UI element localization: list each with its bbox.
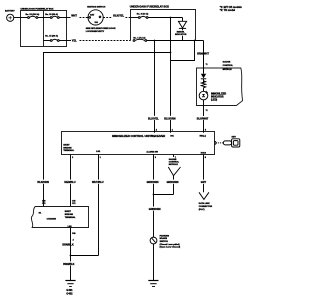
fuse No.15 (40 A) <box>44 34 72 41</box>
node No.1 line / +B vertical <box>154 40 156 42</box>
svg-text:BLU/WHT: BLU/WHT <box>197 117 209 120</box>
svg-text:WHT: WHT <box>71 15 77 18</box>
svg-text:TERMINAL: TERMINAL <box>63 149 74 152</box>
svg-text:C49: C49 <box>72 199 75 202</box>
svg-text:CONTROL: CONTROL <box>223 65 234 67</box>
svg-text:E/KET: E/KET <box>65 211 72 213</box>
wire YEL to under-dash box <box>72 40 131 43</box>
svg-text:*2: TR model: *2: TR model <box>220 9 236 12</box>
svg-text:CONTROL: CONTROL <box>169 162 180 164</box>
ground parking brake switch <box>148 281 158 287</box>
node GRN/ORN merge <box>153 194 155 196</box>
svg-text:BRN/BLK: BRN/BLK <box>63 263 74 266</box>
svg-text:INDICATOR: INDICATOR <box>175 33 187 36</box>
svg-text:WHT/BLU: WHT/BLU <box>92 181 104 184</box>
svg-text:GAUGE: GAUGE <box>223 61 231 64</box>
svg-text:IGNITION SWITCH: IGNITION SWITCH <box>87 6 106 8</box>
svg-text:GRN/ORN: GRN/ORN <box>147 181 159 184</box>
svg-text:SWITCH: SWITCH <box>160 241 169 243</box>
svg-text:(Closed: Lever pulled): (Closed: Lever pulled) <box>160 244 180 246</box>
svg-text:DATA LINK: DATA LINK <box>199 202 210 205</box>
wire BLK/YEL ignition to under-dash box <box>103 15 130 18</box>
fuse No.32 (100 A) <box>21 13 51 19</box>
svg-text:BRIDGE: BRIDGE <box>63 147 72 149</box>
node No.1 line / riser <box>194 40 196 42</box>
svg-text:BATTERY: BATTERY <box>5 9 15 12</box>
diode D (immobilizer indicator diode) <box>175 18 187 41</box>
svg-text:MODULE: MODULE <box>223 69 233 71</box>
svg-text:INDICATOR: INDICATOR <box>211 95 224 98</box>
svg-text:G1: G1 <box>39 213 42 215</box>
wire BRN/WHT from No.1 line down to gauge module <box>197 41 211 74</box>
connector labels above bridge box <box>42 199 75 205</box>
svg-text:G402: G402 <box>66 292 73 295</box>
svg-text:BLK/YEL: BLK/YEL <box>113 15 124 18</box>
node fuse9/IG1 junction <box>170 17 172 19</box>
fuse No.1 (7.5 A) <box>133 36 203 41</box>
svg-text:ALARM SW: ALARM SW <box>146 151 157 154</box>
svg-text:No. 32 (100 A): No. 32 (100 A) <box>26 13 40 16</box>
battery B1 <box>5 9 15 21</box>
svg-text:GRN/ORN: GRN/ORN <box>149 208 161 211</box>
svg-text:GRY: GRY <box>201 181 207 184</box>
LED immobilizer indicator <box>199 91 226 101</box>
immobilizer control unit-receiver box <box>62 132 215 155</box>
svg-text:CHASSIS: CHASSIS <box>47 218 57 221</box>
wire label BRN/BLK lower <box>63 261 75 266</box>
wire switch to ground <box>153 244 155 280</box>
note *1 *2 <box>220 6 243 12</box>
wire vertical B (+B feed) to control unit <box>154 41 156 132</box>
svg-text:(Open: Lever released): (Open: Lever released) <box>160 247 181 249</box>
wire riser from No.1 line down-left to IG1 vertical <box>171 41 195 61</box>
svg-text:C72: C72 <box>72 203 75 205</box>
label E/KET bridge terminal (pin 2) <box>63 145 74 153</box>
node bus junction on vertical A <box>170 52 172 54</box>
svg-text:(DLC): (DLC) <box>199 209 205 211</box>
wire bridge box down to ground <box>62 228 75 281</box>
pin 1 top (IG1) <box>170 129 174 137</box>
wire label GRN/ORN lower <box>149 207 163 212</box>
wire vertical A (IG1 feed) to control unit <box>170 18 172 132</box>
svg-text:BRIDGE: BRIDGE <box>65 214 74 216</box>
svg-text:KEY: KEY <box>232 136 237 138</box>
gauge control module box (torn edge) <box>197 61 243 106</box>
under-hood fuse/relay box <box>21 7 67 46</box>
svg-text:BAT: BAT <box>90 14 95 17</box>
svg-text:IMMOBILIZER CONTROL UNIT-RECEI: IMMOBILIZER CONTROL UNIT-RECEIVER <box>112 134 165 138</box>
wire battery to under-hood box <box>14 17 21 19</box>
wire bus from vertical A to left drop <box>44 53 171 207</box>
svg-text:C72: C72 <box>42 203 45 205</box>
svg-text:TERMINAL: TERMINAL <box>65 216 76 219</box>
wire pin1 branch merge <box>71 255 99 257</box>
svg-text:No. 15 (40 A): No. 15 (40 A) <box>45 34 58 37</box>
wire WHT to ignition switch <box>71 15 88 18</box>
svg-text:UNDER-DASH FUSE/RELAY BOX: UNDER-DASH FUSE/RELAY BOX <box>130 6 170 9</box>
svg-text:No. 9 (10 A): No. 9 (10 A) <box>137 12 149 15</box>
ignition key with transponder <box>223 136 240 147</box>
pin 4 (+B) <box>150 128 158 137</box>
svg-text:BLK/YEL: BLK/YEL <box>148 117 159 120</box>
svg-text:BLU/ORN: BLU/ORN <box>164 117 176 120</box>
wire LED to control unit pin 5 <box>197 100 211 132</box>
svg-text:BRAKE: BRAKE <box>160 237 168 240</box>
fuse No.33 (50 A) <box>45 13 70 19</box>
svg-text:E/KET: E/KET <box>63 145 70 147</box>
svg-text:MODULE: MODULE <box>169 164 179 166</box>
svg-text:No. 33 (50 A): No. 33 (50 A) <box>45 13 58 16</box>
wire label BLU/ORN <box>164 116 178 121</box>
svg-text:DIAG: DIAG <box>201 152 207 155</box>
wire label BLK/ORN <box>37 180 51 185</box>
diode in gauge module <box>201 41 206 84</box>
ground G401 <box>65 281 75 296</box>
svg-text:YEL: YEL <box>72 40 77 43</box>
wire pin2 down to bridge terminal box <box>64 155 77 207</box>
svg-text:C49: C49 <box>42 199 45 202</box>
ignition switch <box>86 6 116 32</box>
svg-text:UNDER-HOOD FUSE/RELAY BOX: UNDER-HOOD FUSE/RELAY BOX <box>21 7 55 10</box>
node merge junction <box>70 255 72 257</box>
svg-text:BLK/ORN: BLK/ORN <box>37 181 49 184</box>
pin 5 (IND) <box>200 129 207 137</box>
antenna output on right edge <box>215 141 217 144</box>
wire pin1 down <box>92 155 106 256</box>
wire pin3 down (parking brake) <box>146 155 160 238</box>
svg-text:IMMOBILIZER: IMMOBILIZER <box>211 93 227 95</box>
resistor in gauge module <box>201 81 205 91</box>
svg-text:CONNECTOR: CONNECTOR <box>199 206 213 208</box>
parking brake switch <box>150 234 180 248</box>
svg-text:IND(+): IND(+) <box>200 136 206 138</box>
svg-text:2: 2 <box>73 239 74 241</box>
fuse No.9 (10 A) <box>131 12 183 18</box>
wire pin8 GRY to DLC arrow <box>199 155 213 211</box>
svg-text:C49: C49 <box>72 232 75 235</box>
svg-text:(LED): (LED) <box>211 99 217 101</box>
svg-text:LOCKS/SECURITY: LOCKS/SECURITY <box>86 31 105 33</box>
wire label BLK/YEL <box>148 116 162 121</box>
svg-text:GAUGE: GAUGE <box>169 158 177 161</box>
svg-text:RED/BLU: RED/BLU <box>64 181 75 184</box>
svg-text:PARKING: PARKING <box>160 234 170 237</box>
svg-text:BRN/BLK: BRN/BLK <box>62 243 73 246</box>
svg-text:GRN/ORN: GRN/ORN <box>167 181 179 184</box>
dashed link to key <box>216 142 223 144</box>
under-dash fuse/relay box <box>130 6 196 41</box>
gauge control module arrow branch (pin 7) <box>154 155 181 195</box>
E/KET bridge terminal box (torn edge) <box>31 207 88 228</box>
